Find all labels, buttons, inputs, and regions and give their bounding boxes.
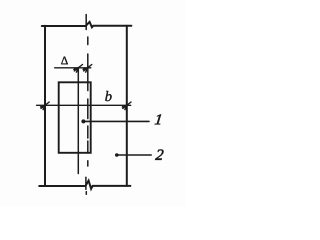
member 2 outline (column, left edge) — [44, 26, 46, 186]
label b — [105, 91, 111, 101]
centerline axis of member 2 (dashed vertical) — [87, 37, 89, 166]
member 2 outline (right edge) — [126, 26, 128, 186]
label 2 — [155, 150, 163, 160]
bottom break line (bottom edge of member 2 with break symbol) — [39, 177, 130, 194]
leader 2 — [115, 153, 151, 157]
dimension line b — [37, 102, 131, 110]
leader 1 — [81, 119, 149, 123]
label delta — [61, 57, 68, 65]
top break line (top edge of member 2 with break symbol) — [42, 15, 132, 30]
dimension line delta — [55, 65, 92, 73]
embedded part 1 outline — [59, 82, 91, 153]
axis of part 1 (vertical thin line) — [77, 68, 79, 174]
label 1 — [155, 114, 162, 124]
